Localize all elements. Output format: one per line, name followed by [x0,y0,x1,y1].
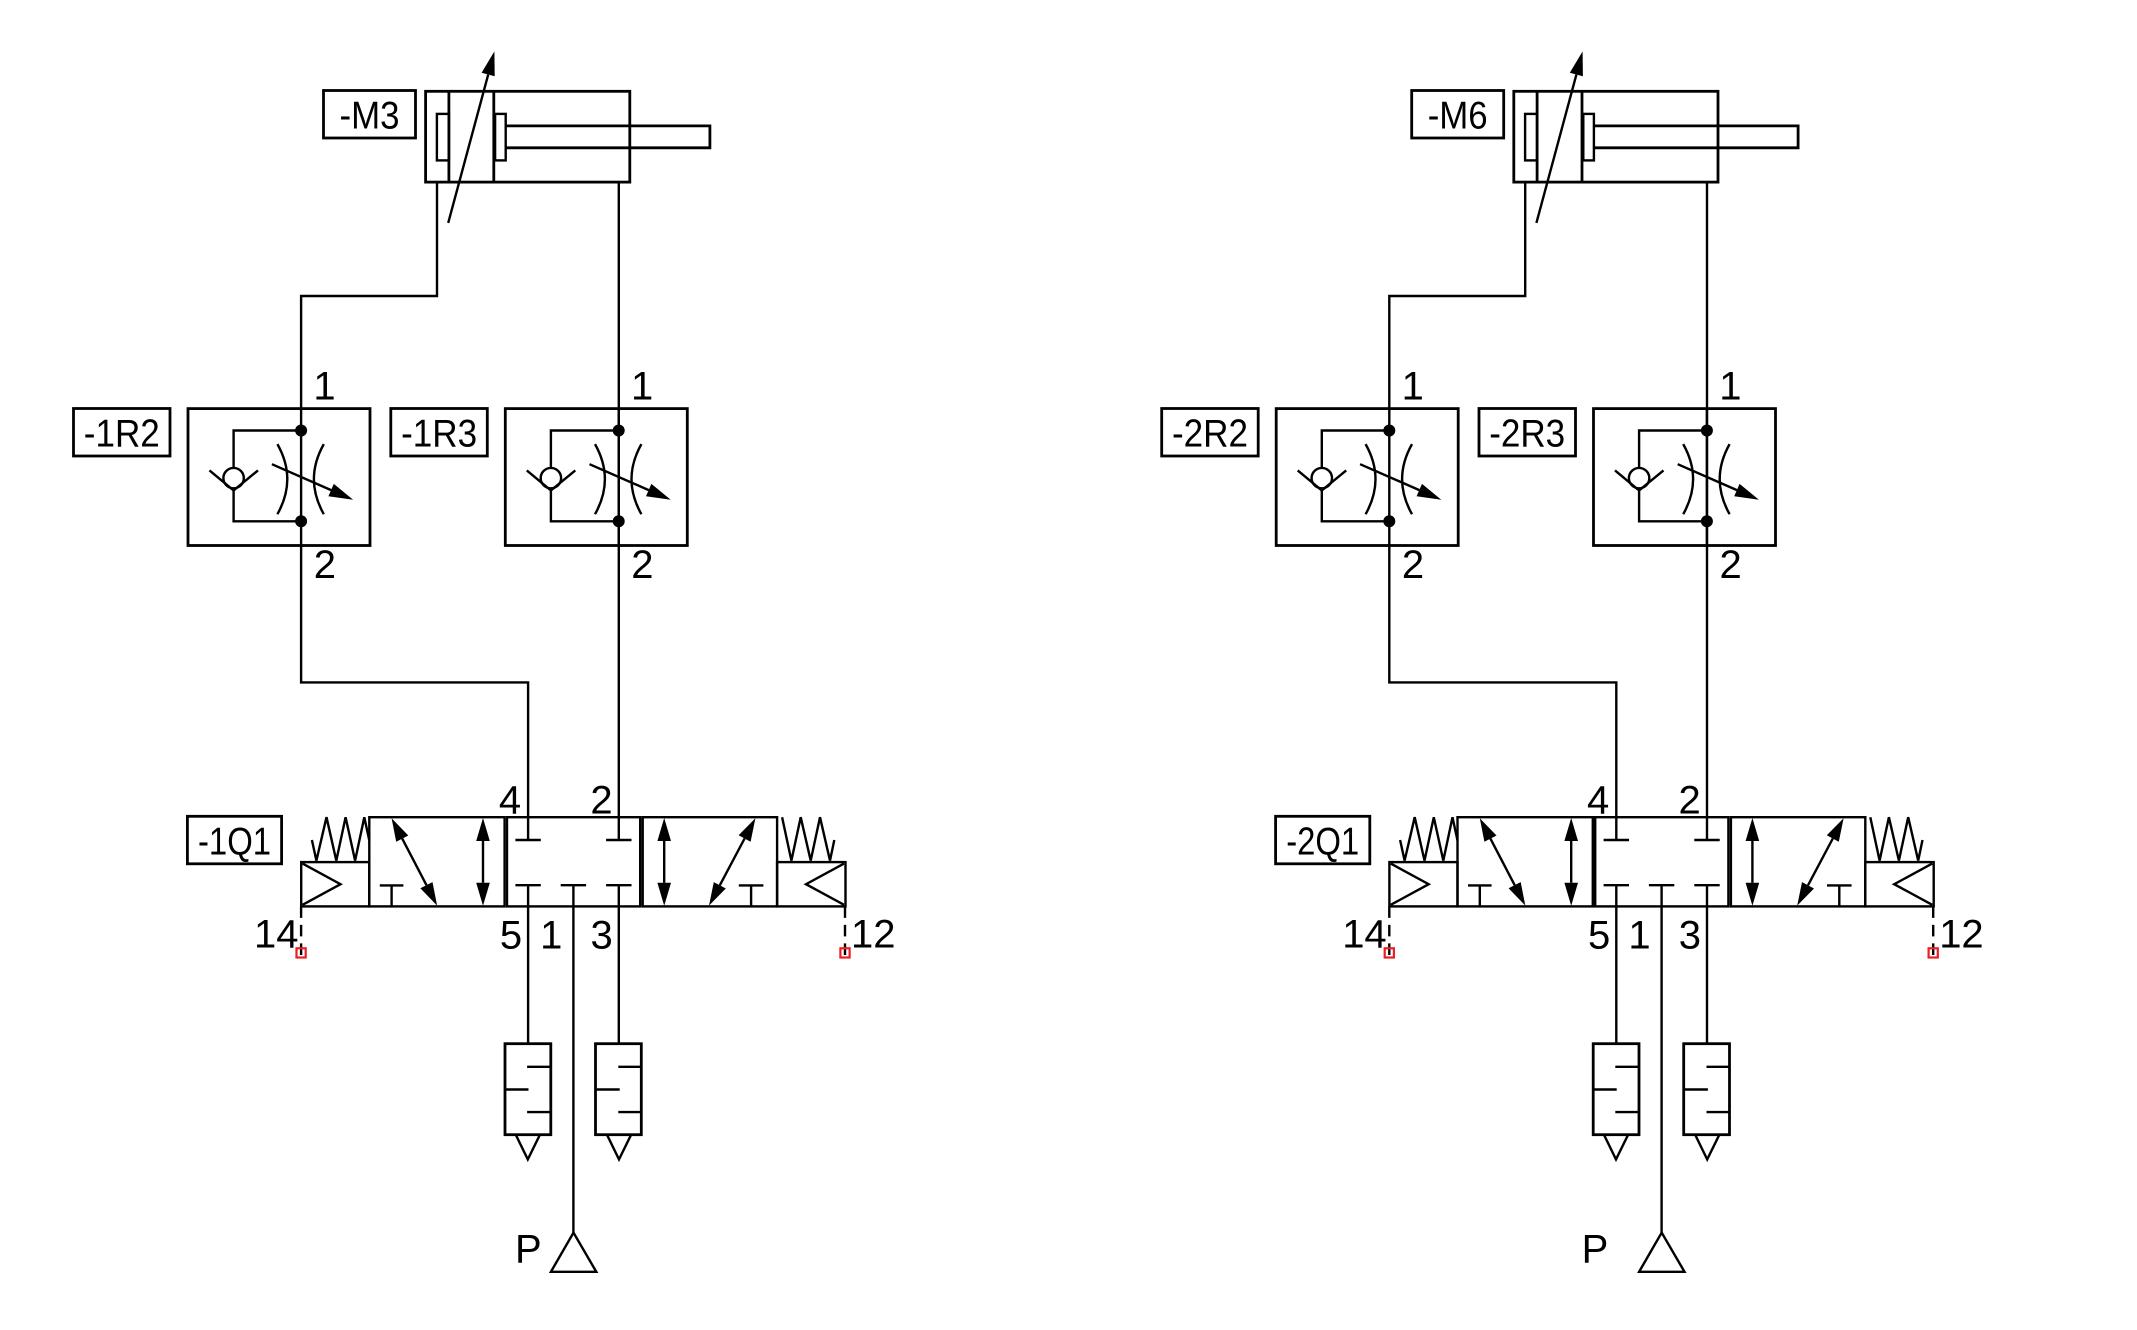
svg-text:-2R2: -2R2 [1172,413,1248,456]
pilot head 12 of -2Q1 [1865,862,1933,906]
svg-text:1: 1 [313,365,335,409]
wire -2R2 port 2 to -2Q1 port 4 [1389,546,1616,818]
wire -1Q1 port 5 to silencer [527,906,529,1043]
pilot head 14 of -1Q1 [301,862,369,906]
valve -2Q1 position box left [1458,817,1593,906]
svg-text:4: 4 [499,779,521,823]
svg-text:-1Q1: -1Q1 [198,820,271,863]
svg-text:1: 1 [1628,914,1650,958]
svg-text:1: 1 [631,365,653,409]
valve -2Q1 position box middle [1595,817,1728,906]
svg-text:-1R2: -1R2 [84,413,160,456]
valve -2Q1 middle-position blocked ports [1604,817,1720,906]
label -2R2 [1162,409,1259,457]
wire -M3 left port to -1R2 port 1 [301,182,437,409]
svg-text:1: 1 [1402,365,1424,409]
valve -2Q1 right-position flow symbols [1746,818,1852,906]
label -1Q1 [187,816,281,864]
label -M3 [324,91,416,139]
svg-text:4: 4 [1587,779,1609,823]
svg-text:2: 2 [590,779,612,823]
wire -1R2 port 2 to -1Q1 port 4 [301,546,528,818]
wire -M3 right port to -1Q1 port 2 (through -1R3) [618,182,620,817]
pilot head 12 of -1Q1 [777,862,845,906]
label -1R2 [74,409,171,457]
svg-text:2: 2 [1720,543,1742,587]
label -M6 [1412,91,1504,139]
cylinder -M6 [1514,91,1798,182]
svg-text:1: 1 [1719,365,1741,409]
wire -M6 right port to -2Q1 port 2 (through -2R3) [1706,182,1708,817]
valve -1Q1 middle-position blocked ports [515,817,631,906]
svg-text:5: 5 [500,914,522,958]
return spring right of -2Q1 [1870,817,1922,860]
valve -1Q1 position box middle [507,817,640,906]
label -2Q1 [1276,816,1370,864]
svg-text:3: 3 [591,914,613,958]
cylinder -M3 [426,91,710,182]
pilot port 12 line of -2Q1 [1932,906,1934,947]
return spring left of -1Q1 [312,817,369,860]
wire -M6 left port to -2R2 port 1 [1389,182,1525,409]
stroke-limit arrow of -M6 [1536,51,1583,223]
svg-text:P: P [1582,1227,1609,1271]
svg-text:-2R3: -2R3 [1489,413,1565,456]
valve -2Q1 position box right [1731,817,1865,906]
pilot port 12 line of -1Q1 [844,906,846,947]
svg-text:-M6: -M6 [1428,95,1488,138]
valve -1Q1 position box left [369,817,504,906]
silencer at port 3 of -1Q1 [596,1044,642,1160]
valve -1Q1 position box right [643,817,777,906]
pressure source P of -2Q1 [1639,1233,1684,1272]
return spring left of -2Q1 [1400,817,1457,860]
svg-text:2: 2 [314,543,336,587]
flow control valve -2R3 [1594,409,1776,546]
flow control valve -1R3 [505,409,687,546]
wire -1Q1 port 1 to P source [572,906,574,1232]
svg-text:14: 14 [254,913,299,957]
svg-text:12: 12 [1939,913,1984,957]
pilot head 14 of -2Q1 [1389,862,1457,906]
svg-text:-2Q1: -2Q1 [1286,820,1359,863]
stroke-limit arrow of -M3 [448,51,495,223]
pilot port 14 line of -1Q1 [300,906,302,947]
pilot port 14 line of -2Q1 [1388,906,1390,947]
svg-text:-M3: -M3 [340,95,400,138]
svg-text:1: 1 [540,914,562,958]
svg-text:P: P [515,1227,542,1271]
flow control valve -2R2 [1276,409,1458,546]
svg-text:2: 2 [1679,779,1701,823]
silencer at port 5 of -2Q1 [1593,1044,1639,1160]
flow control valve -1R2 [188,409,370,546]
svg-text:5: 5 [1588,914,1610,958]
svg-text:2: 2 [1402,543,1424,587]
wire -2Q1 port 5 to silencer [1615,906,1617,1043]
svg-text:3: 3 [1679,914,1701,958]
wire -2Q1 port 3 to silencer [1706,906,1708,1043]
label -1R3 [391,409,488,457]
valve -1Q1 left-position flow symbols [380,818,490,906]
wire -2Q1 port 1 to P source [1660,906,1662,1232]
silencer at port 5 of -1Q1 [505,1044,551,1160]
valve -2Q1 left-position flow symbols [1468,818,1578,906]
return spring right of -1Q1 [782,817,834,860]
wire -1Q1 port 3 to silencer [618,906,620,1043]
silencer at port 3 of -2Q1 [1684,1044,1730,1160]
svg-text:-1R3: -1R3 [401,413,477,456]
label -2R3 [1479,409,1576,457]
valve -1Q1 right-position flow symbols [657,818,763,906]
pressure source P of -1Q1 [551,1233,596,1272]
svg-text:2: 2 [631,543,653,587]
svg-text:12: 12 [851,913,896,957]
svg-text:14: 14 [1342,913,1387,957]
